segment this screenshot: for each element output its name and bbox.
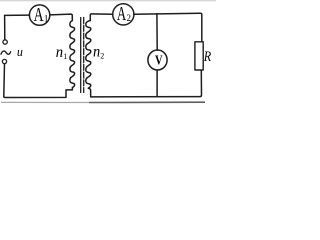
transformer primary winding n1 xyxy=(70,21,75,88)
wire V branch lower xyxy=(156,70,158,97)
ammeter A1 circle xyxy=(29,5,49,25)
scan border bottom left segment xyxy=(1,101,89,103)
svg-text:R: R xyxy=(203,49,211,65)
wire V branch upper xyxy=(156,14,158,51)
AC source tilde xyxy=(1,51,11,54)
terminal upper xyxy=(3,40,7,44)
wire A2 to top-right corner down to resistor xyxy=(134,13,202,42)
svg-text:A: A xyxy=(117,3,127,25)
scan border top xyxy=(0,0,216,2)
resistor R box xyxy=(195,42,203,70)
wire lower terminal down to bottom xyxy=(3,64,6,96)
svg-text:A: A xyxy=(34,4,44,26)
transformer secondary winding n2 xyxy=(86,21,91,89)
wire resistor bottom to bottom-right corner xyxy=(91,70,202,97)
transformer core line left xyxy=(80,18,82,93)
svg-text:V: V xyxy=(155,52,163,67)
wire bottom left loop with jog to primary xyxy=(4,88,73,98)
svg-text:n: n xyxy=(56,44,63,61)
voltmeter V circle xyxy=(148,50,167,70)
svg-text:1: 1 xyxy=(44,14,49,24)
svg-text:u: u xyxy=(17,44,23,59)
wire bottom to secondary xyxy=(88,88,90,97)
transformer core line right xyxy=(83,18,85,93)
svg-text:2: 2 xyxy=(127,13,132,23)
wire top-left: source to A1 xyxy=(5,14,30,16)
svg-text:2: 2 xyxy=(100,52,104,61)
scan border bottom right segment xyxy=(89,101,205,103)
wire left vertical: corner to upper terminal xyxy=(4,15,6,39)
wire secondary top to A2 xyxy=(90,14,112,21)
terminal lower xyxy=(2,59,6,63)
ammeter A2 circle xyxy=(113,4,134,25)
wire A1 to transformer primary, corner down xyxy=(50,14,72,20)
svg-text:n: n xyxy=(93,43,100,60)
svg-text:1: 1 xyxy=(63,52,67,61)
